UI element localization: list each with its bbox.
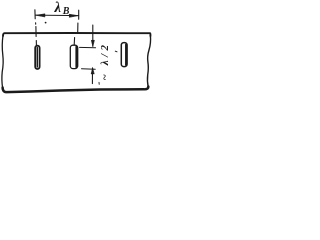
dimension lambda/2 top extension line — [80, 46, 96, 48]
dimension lambda/2 lower arrow line — [91, 68, 93, 84]
plate top edge — [3, 33, 150, 36]
dimension lambda/2 lower arrowhead (up) — [91, 68, 94, 75]
slot 3 — [121, 43, 127, 67]
dimension lambda/2 upper arrow line — [92, 25, 94, 46]
svg-text:~ λ/2: ~ λ/2 — [99, 42, 111, 81]
slot 2 thick right edge — [75, 47, 77, 68]
dimension lambda-B left arrowhead — [35, 14, 45, 17]
slot 2 — [70, 45, 77, 68]
svg-text:λ: λ — [54, 0, 62, 16]
dimension lambda-B right arrowhead — [69, 14, 79, 17]
svg-text:B: B — [62, 6, 70, 17]
dimension lambda-B extension line left — [35, 10, 37, 45]
stray ink dot — [45, 22, 47, 24]
dimension lambda-B extension line right — [74, 10, 79, 45]
slot 1 inner shade — [36, 48, 38, 68]
plate bottom edge — [3, 87, 149, 93]
slot 3 thick right edge — [125, 45, 127, 66]
stray mark near slot 3 — [115, 50, 117, 53]
dimension lambda-B line — [35, 14, 78, 17]
dimension lambda/2 upper arrowhead (down) — [91, 40, 94, 47]
stray mark bottom — [98, 82, 100, 84]
dimension lambda/2 bottom extension line — [82, 68, 96, 71]
slot 1 — [35, 46, 39, 69]
plate right edge (break line) — [147, 36, 150, 88]
plate left edge (break line) — [2, 36, 3, 88]
